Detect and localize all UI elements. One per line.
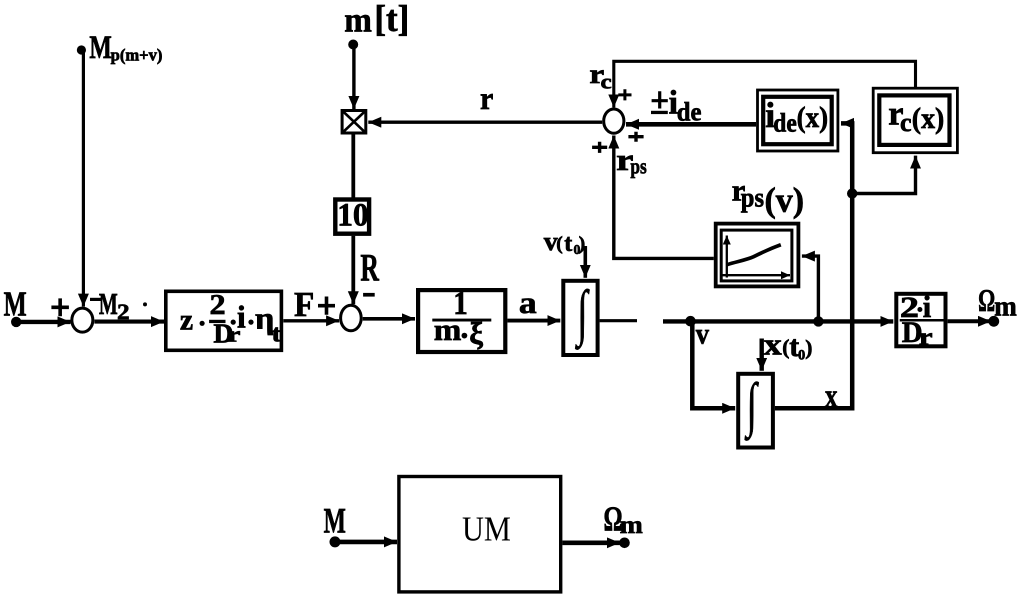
svg-text:(x): (x) xyxy=(912,102,945,135)
svg-text:2: 2 xyxy=(210,289,226,321)
svg-text:10: 10 xyxy=(337,197,368,233)
svg-text:r: r xyxy=(480,80,494,116)
svg-text:∫: ∫ xyxy=(575,279,590,350)
svg-text:m: m xyxy=(434,313,462,346)
svg-text:M: M xyxy=(89,30,112,65)
svg-text:M: M xyxy=(99,287,118,321)
svg-text:M: M xyxy=(4,284,27,323)
svg-text:Ω: Ω xyxy=(978,283,995,318)
svg-text:F: F xyxy=(294,285,314,324)
svg-text:ξ: ξ xyxy=(469,317,483,351)
svg-text:(: ( xyxy=(556,233,562,254)
svg-text:M: M xyxy=(324,500,346,540)
svg-text:R: R xyxy=(360,246,379,290)
svg-text:r: r xyxy=(919,324,933,351)
svg-text:(v): (v) xyxy=(765,181,805,220)
svg-text:[t]: [t] xyxy=(374,0,409,39)
svg-text:c: c xyxy=(601,70,612,94)
svg-text:de: de xyxy=(773,109,796,137)
svg-text:t: t xyxy=(564,231,572,257)
svg-text:∫: ∫ xyxy=(744,371,759,442)
svg-text:m: m xyxy=(344,0,372,39)
svg-text:i: i xyxy=(923,290,931,324)
svg-text:c: c xyxy=(900,108,912,137)
svg-text:a: a xyxy=(519,286,537,320)
svg-text:p(m+v): p(m+v) xyxy=(111,46,163,65)
svg-text:): ) xyxy=(579,233,585,254)
svg-text:z: z xyxy=(180,303,193,336)
svg-text:x: x xyxy=(825,377,838,415)
svg-text:): ) xyxy=(805,335,812,359)
svg-text:v: v xyxy=(696,318,710,351)
svg-text:ps: ps xyxy=(630,154,647,179)
svg-text:0: 0 xyxy=(798,348,805,364)
svg-text:m: m xyxy=(620,510,643,539)
svg-text:m: m xyxy=(994,290,1017,321)
svg-text:t: t xyxy=(272,320,282,347)
svg-text:UM: UM xyxy=(462,511,511,549)
svg-text:x: x xyxy=(764,328,782,362)
svg-text:ps: ps xyxy=(741,182,764,212)
svg-text:de: de xyxy=(677,98,702,127)
svg-text:(x): (x) xyxy=(797,102,828,135)
svg-text:i: i xyxy=(237,300,246,335)
svg-text:2: 2 xyxy=(117,300,130,324)
